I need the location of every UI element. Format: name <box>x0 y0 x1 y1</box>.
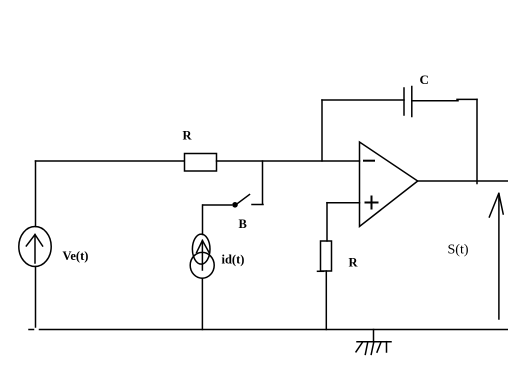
wire: from switch pole down to current source <box>202 205 204 235</box>
svg-text:R: R <box>183 129 193 143</box>
svg-text:R: R <box>349 256 359 270</box>
wire: feedback top horizontal to capacitor <box>322 99 404 101</box>
wire: feedback right vertical down to output <box>476 99 478 183</box>
op-amp plus sign (non-inverting input marker) <box>366 197 378 209</box>
wire: plus input drop down to resistor R2 <box>326 203 328 241</box>
wire: below current source to ground rail <box>201 278 203 329</box>
wire: below Ve source to ground rail <box>35 267 37 328</box>
svg-text:C: C <box>420 72 429 87</box>
wire: top input from node A to resistor R1 <box>36 160 185 162</box>
signal arrow S(t) (vertical arrow pointing up) <box>489 194 503 320</box>
svg-text:B: B <box>239 217 247 231</box>
svg-text:S(t): S(t) <box>448 243 469 258</box>
svg-text:id(t): id(t) <box>222 253 245 267</box>
op-amp minus sign (inverting input marker) <box>364 160 374 162</box>
wire: left vertical from top wire down to Ve source <box>35 161 37 227</box>
wire: R1 to op-amp inverting input <box>217 160 360 162</box>
voltage source Ve (ellipse with up arrow) <box>19 227 51 267</box>
ground (stub, bar and hatching) <box>356 330 391 355</box>
wire: below R2 to ground rail <box>325 271 327 330</box>
wire: feedback left vertical (node between R1 and op-amp up to C) <box>321 100 323 161</box>
resistor R2 (vertical) <box>318 241 332 271</box>
current source id (two overlapping circles with up arrow) <box>190 234 214 278</box>
wire: non-inverting input horizontal <box>327 202 360 204</box>
capacitor C (two plates) <box>404 87 412 117</box>
resistor R1 (horizontal) <box>185 154 217 172</box>
wire: op-amp output to right edge <box>418 180 508 182</box>
switch B (pole wire, contact dot, open blade) <box>203 195 250 208</box>
wire: capacitor right plate to feedback right corner <box>412 99 477 100</box>
ground rail (bottom horizontal) <box>29 329 508 331</box>
svg-text:Ve(t): Ve(t) <box>63 249 89 263</box>
wire: switch right terminal drop from top wire <box>252 161 263 205</box>
op-amp U1 (triangle) <box>360 142 418 227</box>
